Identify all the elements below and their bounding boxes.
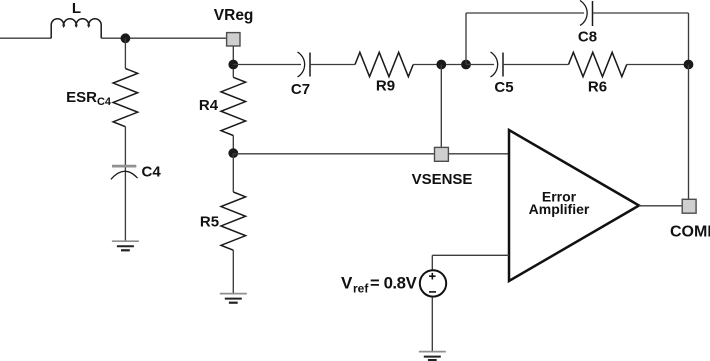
wire down to COMP: [688, 65, 690, 200]
COMP pad square: [682, 199, 696, 213]
VSENSE pad square: [435, 147, 449, 161]
wire apex to COMP: [639, 205, 682, 207]
resistor R4: [221, 77, 246, 135]
svg-text:Amplifier: Amplifier: [529, 201, 590, 217]
source Vref: [420, 270, 446, 296]
wire C8 top left: [466, 12, 584, 14]
wire SW down to ESR: [124, 38, 126, 68]
resistor ESR_C4: [113, 69, 138, 127]
wire VReg down: [232, 46, 234, 77]
wire C8 branch down: [688, 13, 690, 65]
svg-text:VReg: VReg: [214, 7, 254, 24]
wire C7 to R9: [310, 64, 355, 66]
svg-text:C5: C5: [494, 79, 513, 96]
svg-text:L: L: [72, 0, 81, 17]
resistor R6: [569, 52, 627, 76]
svg-text:C4: C4: [142, 163, 162, 180]
wire R6 to corner: [627, 64, 689, 66]
wire node to C5: [466, 64, 494, 66]
wire C5 to R6: [503, 64, 569, 66]
node feedback junction dot: [228, 148, 238, 158]
svg-text:R6: R6: [588, 78, 607, 95]
wire R5 to ground: [232, 250, 234, 294]
wire node to C7: [233, 64, 301, 66]
wire C8 branch up: [465, 13, 467, 65]
svg-text:R4: R4: [199, 97, 219, 114]
wire inverting input: [432, 254, 509, 256]
wire VSENSE rail: [233, 153, 509, 155]
capacitor C8: [580, 1, 593, 27]
svg-text:R5: R5: [200, 214, 219, 231]
capacitor C7: [298, 52, 311, 77]
svg-text:VSENSE: VSENSE: [412, 171, 473, 188]
resistor R9: [355, 52, 413, 76]
svg-text:R9: R9: [376, 77, 395, 94]
inductor L: [51, 19, 101, 38]
wire VSENSE up: [440, 65, 442, 148]
wire R9 to node: [413, 64, 466, 66]
VReg pad square: [227, 33, 240, 46]
wire Vref to ground: [431, 297, 433, 352]
wire ESR to C4: [124, 127, 126, 242]
resistor R5: [221, 192, 246, 250]
ground under R5: [220, 294, 247, 303]
op-amp error amplifier: [509, 130, 639, 281]
wire down to Vref: [431, 255, 433, 269]
capacitor C5: [491, 52, 504, 77]
svg-text:COMP: COMP: [670, 223, 710, 240]
wire C8 top right: [593, 12, 689, 14]
capacitor C4: [112, 165, 136, 168]
node C8 branch junction dot: [461, 60, 471, 70]
node output junction dot: [684, 60, 694, 70]
wire input left: [0, 37, 51, 39]
wire R5 top: [232, 153, 234, 192]
ground under C4: [112, 241, 139, 250]
ground under Vref: [419, 352, 446, 361]
wire R4 to node: [232, 135, 234, 152]
node R4 top junction dot: [228, 60, 238, 70]
node SW junction dot: [121, 33, 131, 43]
wire inductor to VReg: [101, 37, 226, 39]
svg-text:C8: C8: [578, 29, 597, 46]
svg-text:C7: C7: [291, 81, 310, 98]
node VSENSE-feed junction dot: [436, 60, 446, 70]
